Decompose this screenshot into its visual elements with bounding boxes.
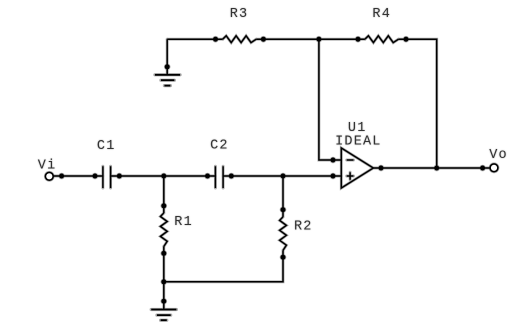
op-amp minus sign — [347, 159, 354, 161]
node junction bottom wire — [161, 279, 166, 284]
terminal Vi (open circle) — [45, 172, 53, 180]
capacitor C2 — [215, 166, 223, 188]
junction dot R3 left pin — [213, 37, 218, 42]
junction dot R4 right pin — [404, 37, 409, 42]
junction dot R4 left pin — [356, 37, 361, 42]
junction dot op-amp plus pin — [331, 174, 336, 179]
junction dot R2 top pin — [281, 207, 286, 212]
junction dot op-amp output pin — [379, 166, 384, 171]
junction dot top ground pin — [165, 64, 170, 69]
junction dot R1 top pin — [161, 203, 166, 208]
svg-text:C2: C2 — [210, 139, 229, 154]
wire top horizontal left segment — [167, 38, 223, 40]
capacitor C1 — [103, 166, 111, 188]
junction dot C1 right pin — [117, 174, 122, 179]
wire inverting feed from top junction to op-amp minus input — [319, 39, 341, 160]
svg-text:R3: R3 — [230, 7, 249, 22]
node junction R2 branch — [281, 174, 286, 179]
wire output from op-amp apex to Vo terminal — [373, 167, 490, 169]
wire top horizontal right segment with corner down to output — [398, 39, 436, 168]
wire top horizontal middle segment — [256, 38, 365, 40]
terminal Vo (open circle) — [490, 164, 498, 172]
resistor R3 — [223, 36, 257, 43]
resistor R4 — [365, 36, 399, 43]
op-amp plus sign — [347, 172, 354, 180]
op-amp U1 triangle — [341, 148, 373, 188]
junction dot R1 bottom pin — [161, 251, 166, 256]
svg-text:C1: C1 — [97, 139, 116, 154]
wire R2 branch upper — [282, 176, 284, 217]
svg-text:Vo: Vo — [489, 148, 508, 163]
junction dot C2 left pin — [205, 174, 210, 179]
junction dot C1 left pin — [93, 174, 98, 179]
node junction R1 branch — [161, 174, 166, 179]
ground (top) bars — [155, 75, 180, 86]
junction dot R3 right pin — [261, 37, 266, 42]
resistor R1 — [160, 213, 167, 247]
junction dot op-amp minus pin — [331, 158, 336, 163]
svg-text:R2: R2 — [294, 220, 313, 235]
node junction top to inverting input — [316, 37, 321, 42]
wire R1 branch lower to bottom ground — [163, 247, 165, 310]
svg-text:R1: R1 — [174, 215, 193, 230]
node junction feedback to output — [434, 166, 439, 171]
svg-text:IDEAL: IDEAL — [335, 135, 382, 150]
resistor R2 — [280, 217, 287, 251]
wire from C2 to op-amp plus input — [223, 175, 341, 177]
wire R1 branch upper — [163, 176, 165, 213]
svg-text:R4: R4 — [372, 7, 391, 22]
wire input from Vi terminal to C1 — [53, 175, 103, 177]
junction dot C2 right pin — [229, 174, 234, 179]
junction dot R2 bottom pin — [281, 255, 286, 260]
junction dot Vo terminal pin — [480, 166, 485, 171]
svg-text:Vi: Vi — [38, 159, 57, 174]
wire R2 branch lower with corner to bottom wire — [164, 250, 283, 281]
wire top-left stem to ground — [166, 39, 168, 75]
junction dot bottom ground pin — [161, 299, 166, 304]
ground (bottom) bars — [151, 310, 176, 321]
junction dot input wire — [59, 174, 64, 179]
wire from C1 to C2 — [111, 175, 216, 177]
